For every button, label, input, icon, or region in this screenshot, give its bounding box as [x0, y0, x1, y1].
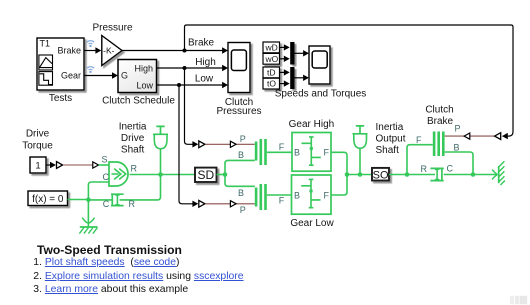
wire wD to mux: [280, 44, 290, 50]
svg-text:Shaft: Shaft: [121, 145, 145, 156]
label Speeds and Torques: [275, 88, 367, 99]
svg-text:Tests: Tests: [49, 93, 72, 104]
svg-text:P: P: [240, 205, 246, 215]
svg-text:Gear High: Gear High: [289, 119, 335, 130]
damper output shaft: [430, 168, 473, 181]
svg-text:T1: T1: [40, 39, 51, 49]
port label C source: [103, 172, 110, 182]
list item 2 Explore simulation results: [33, 271, 243, 283]
svg-text:R: R: [421, 164, 428, 174]
svg-text:B: B: [294, 190, 300, 200]
constant block 1: [30, 157, 46, 173]
wire SD to clutch bus: [217, 174, 226, 176]
svg-text:SO: SO: [373, 170, 389, 182]
svg-text:Brake: Brake: [188, 37, 215, 48]
port label P clutch high: [240, 134, 246, 144]
mux torques: [290, 67, 294, 89]
wire tD to mux: [280, 69, 290, 75]
svg-text:High: High: [134, 64, 153, 74]
svg-text:SD: SD: [197, 168, 214, 182]
label Tests: [49, 93, 72, 104]
from tag tO: [263, 78, 280, 89]
svg-text:Gear Low: Gear Low: [290, 218, 334, 229]
wire High to scope: [157, 65, 229, 71]
block Clutch Schedule: [118, 60, 157, 93]
svg-text:Speeds and Torques: Speeds and Torques: [275, 88, 367, 99]
svg-text:Low: Low: [136, 81, 153, 91]
list item 3 Learn more: [33, 284, 188, 296]
junction ground bus: [86, 197, 91, 202]
svg-text:Inertia: Inertia: [376, 122, 404, 133]
junction gear outputs: [345, 172, 350, 177]
junction SD bus: [223, 172, 228, 177]
svg-text:f(x) = 0: f(x) = 0: [32, 194, 64, 205]
svg-text:Output: Output: [376, 134, 406, 145]
svg-text:B: B: [238, 188, 244, 198]
wire B clutch brake: [445, 152, 473, 175]
label signal Brake: [188, 37, 215, 48]
svg-text:Drive: Drive: [26, 129, 50, 140]
svg-text:Low: Low: [195, 74, 214, 85]
port label F clutch brake: [416, 135, 422, 145]
svg-text:Torque: Torque: [22, 141, 53, 152]
svg-text:High: High: [195, 57, 216, 68]
wire gear low F to output bus: [331, 175, 347, 196]
PS wire brake pressure: [445, 133, 495, 139]
label signal High: [195, 57, 216, 68]
svg-text:tO: tO: [267, 79, 276, 89]
svg-text:C: C: [447, 164, 454, 174]
converter Simulink-PS brake: [495, 133, 501, 140]
wire Brake branch to Clutch Brake (top route): [185, 25, 514, 139]
mux speeds: [290, 42, 294, 65]
svg-text:tD: tD: [267, 68, 276, 78]
wire clutch low F to gear low: [267, 194, 292, 196]
wire clutch high F to gear high: [267, 151, 292, 153]
label Clutch Brake: [425, 105, 453, 127]
gear block Gear Low: [292, 175, 332, 214]
wire F to clutch brake: [407, 145, 433, 175]
wire B to clutch low: [225, 175, 255, 187]
scope Speeds and Torques: [309, 46, 330, 84]
svg-text:P: P: [240, 134, 246, 144]
svg-text:Drive: Drive: [121, 133, 145, 144]
port label B clutch high: [238, 150, 244, 160]
svg-text:P: P: [455, 123, 461, 133]
label Pressure: [92, 23, 132, 34]
svg-text:B: B: [238, 150, 244, 160]
svg-text:Shaft: Shaft: [376, 145, 400, 156]
svg-text:wO: wO: [265, 54, 279, 64]
port label B clutch low: [238, 188, 244, 198]
block Tests T1: [37, 38, 84, 90]
svg-text:B: B: [294, 148, 300, 158]
svg-text:F: F: [279, 196, 285, 206]
svg-text:R: R: [131, 164, 138, 174]
svg-text:Pressure: Pressure: [92, 23, 132, 34]
label Clutch Pressures: [216, 97, 261, 117]
port label R damper output: [421, 164, 428, 174]
clutch Gear High plates: [255, 139, 267, 165]
svg-text:Clutch: Clutch: [425, 105, 453, 116]
svg-text:G: G: [121, 71, 128, 81]
junction clutch brake B: [471, 172, 476, 177]
converter Simulink-PS drive: [57, 162, 63, 169]
svg-text:S: S: [101, 154, 107, 164]
port label C damper: [103, 199, 110, 209]
wire Tests Gear out: [84, 72, 118, 78]
svg-text:-K-: -K-: [103, 46, 115, 56]
wire source R to SD: [130, 174, 195, 176]
actuation wire Low: [179, 85, 198, 207]
svg-text:1: 1: [35, 161, 40, 172]
block SO: [372, 168, 389, 182]
actuation wire High: [185, 68, 199, 148]
label Clutch Schedule: [102, 95, 175, 106]
wire Low to scope: [157, 82, 229, 88]
solver block f(x)=0: [28, 191, 68, 206]
svg-text:F: F: [324, 148, 330, 158]
port label S: [101, 154, 107, 164]
svg-text:B: B: [454, 142, 460, 152]
svg-text:C: C: [103, 199, 110, 209]
converter Simulink-PS low: [199, 200, 205, 207]
PS wire high pressure: [205, 141, 255, 147]
label Inertia Drive Shaft: [119, 122, 147, 156]
port label F clutch low: [279, 196, 285, 206]
wire gear high F to output bus: [331, 152, 347, 174]
svg-text:Brake: Brake: [427, 116, 454, 127]
from tag wD: [263, 42, 280, 53]
inertia output shaft: [353, 126, 368, 175]
scope Clutch Pressures: [228, 43, 250, 93]
clutch Gear Low plates: [255, 184, 267, 210]
torque source block: [109, 162, 128, 186]
inertia drive shaft: [153, 126, 168, 174]
from tag wO: [263, 53, 280, 64]
svg-text:C: C: [103, 172, 110, 182]
svg-text:R: R: [129, 199, 136, 209]
svg-text:Inertia: Inertia: [119, 122, 147, 133]
junction inertia output: [358, 172, 363, 177]
wire PS drive torque: [63, 162, 109, 168]
label Gear Low: [290, 218, 334, 229]
label Gear High: [289, 119, 335, 130]
wire B to clutch high: [225, 160, 255, 174]
port label P clutch brake: [455, 123, 461, 133]
svg-text:Clutch Schedule: Clutch Schedule: [102, 95, 175, 106]
rotational reference right: [473, 161, 505, 185]
ground rotational reference left: [79, 200, 97, 234]
title Two-Speed Transmission: [37, 244, 182, 258]
streaming badge Brake: [87, 41, 94, 47]
svg-text:Gear: Gear: [61, 71, 81, 81]
wire source C to ground bus: [88, 182, 109, 200]
wire output bus to SO: [347, 174, 372, 176]
watermark tiles: [510, 296, 527, 304]
from tag tD: [263, 67, 280, 78]
wire constant to converter: [46, 162, 56, 168]
svg-text:F: F: [416, 135, 422, 145]
PS wire low pressure: [205, 201, 255, 207]
converter Simulink-PS high: [199, 141, 205, 148]
clutch Brake plates: [433, 132, 445, 157]
svg-text:Pressures: Pressures: [216, 106, 261, 117]
label Drive Torque: [22, 129, 53, 152]
list item 1 Plot shaft speeds: [33, 257, 179, 269]
streaming badge Gear: [87, 67, 94, 73]
junction SO out: [405, 172, 410, 177]
wire Brake to scope: [122, 47, 228, 53]
svg-text:F: F: [324, 190, 330, 200]
wire mux2 to scope: [295, 75, 310, 81]
gear block Gear High: [292, 133, 331, 172]
damper drive shaft: [88, 175, 160, 206]
port label R damper: [129, 199, 136, 209]
wire solver to ground bus: [68, 199, 89, 201]
junction drive shaft: [158, 172, 163, 177]
svg-text:wD: wD: [265, 43, 278, 53]
port label F clutch high: [279, 142, 285, 152]
wire Tests Brake out: [84, 47, 101, 53]
port label B clutch brake: [454, 142, 460, 152]
gain block Pressure -K-: [102, 36, 122, 66]
svg-text:F: F: [279, 142, 285, 152]
label signal Low: [195, 74, 214, 85]
wire mux1 to scope: [295, 50, 310, 56]
wire wO to mux: [280, 56, 290, 62]
wire SO to damper: [389, 174, 435, 176]
label Inertia Output Shaft: [376, 122, 406, 156]
wire tO to mux: [280, 80, 290, 86]
port label P clutch low: [240, 205, 246, 215]
svg-text:Brake: Brake: [57, 46, 81, 56]
block SD: [195, 168, 217, 182]
port label C damper output: [447, 164, 454, 174]
port label R source: [131, 164, 138, 174]
